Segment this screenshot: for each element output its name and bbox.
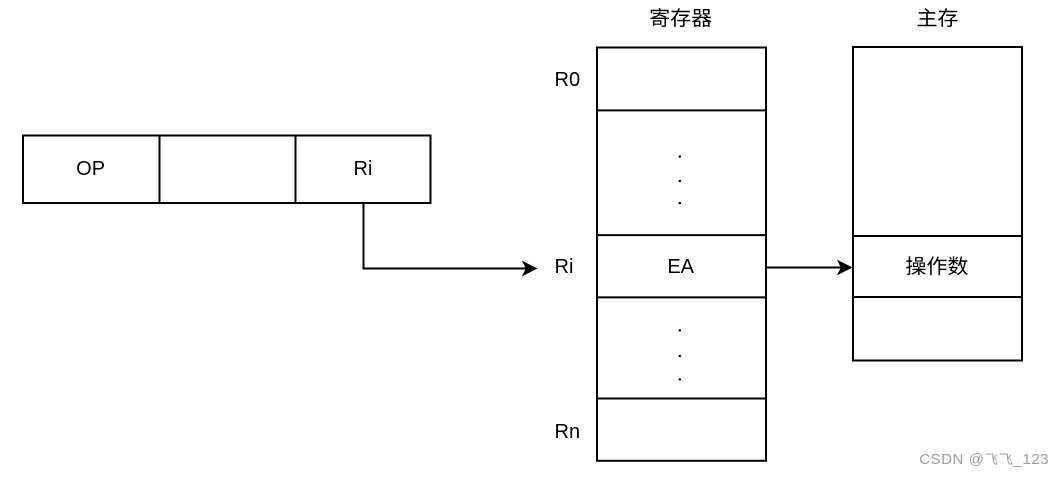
watermark CSDN: [919, 451, 1049, 468]
svg-text:Rn: Rn: [555, 421, 581, 443]
cell separator 2: [295, 136, 297, 204]
svg-text:CSDN @: CSDN @: [919, 451, 984, 468]
row separator dots/Rn: [597, 398, 766, 400]
label 寄存器 (register column title): [650, 8, 711, 27]
svg-text:OP: OP: [76, 158, 105, 180]
label 主存 (main memory title): [918, 8, 958, 27]
row separator above operand: [853, 235, 1022, 237]
instruction word box: [23, 136, 431, 204]
ellipsis dots upper: [679, 155, 681, 204]
svg-text:Ri: Ri: [354, 158, 373, 180]
row separator dots/EA: [597, 234, 766, 236]
svg-text:_123: _123: [1013, 451, 1050, 468]
main memory table: [853, 47, 1022, 361]
arrowhead 1: [522, 261, 538, 277]
svg-text:Ri: Ri: [555, 256, 574, 278]
row separator EA/dots: [597, 296, 766, 298]
cell separator 1: [159, 136, 161, 204]
svg-text:EA: EA: [667, 256, 694, 278]
register table: [597, 48, 766, 461]
ellipsis dots lower: [679, 329, 681, 380]
svg-text:R0: R0: [555, 69, 581, 91]
wire from EA to operand: [767, 267, 842, 269]
row separator below operand: [853, 296, 1022, 298]
row separator R0/dots: [597, 109, 766, 111]
wire from Ri field to register Ri: [364, 203, 527, 269]
label 操作数 (operand): [906, 256, 968, 275]
arrowhead 2: [837, 260, 853, 276]
